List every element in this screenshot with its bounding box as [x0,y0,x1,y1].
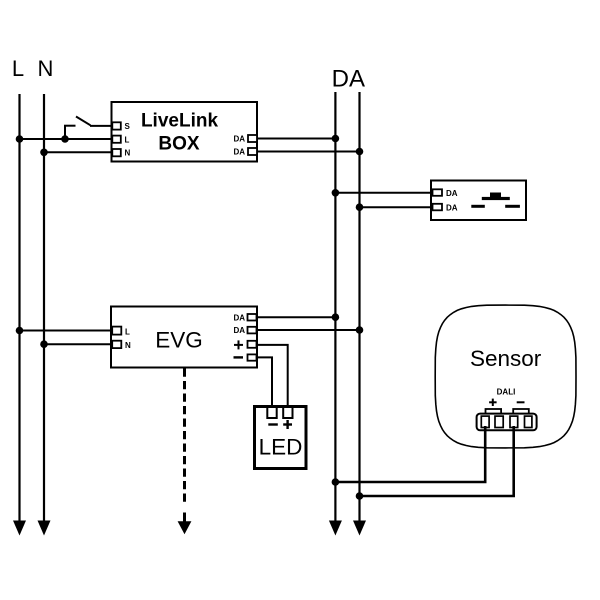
svg-text:L: L [125,135,130,144]
svg-text:DA: DA [233,326,245,335]
wire L bus to EVG L terminal [20,330,112,332]
wire N bus vertical [43,94,45,522]
svg-text:DA: DA [233,135,245,144]
svg-text:EVG: EVG [155,328,203,353]
Sensor connector pin 2 [495,416,503,427]
LiveLink terminal DA upper [248,135,257,142]
wire sensor plus to DA1 bus [335,426,485,482]
wire L bus to LiveLink L terminal [20,138,112,140]
svg-text:L: L [125,327,130,336]
wire EVG DA lower to DA2 bus [257,329,360,331]
wire EVG DA upper to DA1 bus [257,316,336,318]
wire DA1 bus to push-button [335,192,431,194]
EVG terminal L [112,327,121,335]
wire LiveLink DA upper to DA1 bus [257,138,335,140]
LiveLink terminal S [112,122,121,129]
junction dot DA2 / LiveLink [356,148,364,156]
wire EVG minus to LED minus [257,357,273,407]
Sensor connector pin 3 [510,416,518,427]
LiveLink BOX body [112,102,258,162]
LED plus label [283,420,292,429]
svg-text:DALI: DALI [497,387,516,396]
Sensor connector tab plus [486,409,502,415]
Sensor minus label [517,401,525,403]
push-button terminal DA lower [433,204,443,211]
junction dot L bus / L wire [16,135,24,143]
wire sensor minus to DA2 bus [360,426,514,496]
LED module body [255,407,307,469]
svg-text:DA: DA [233,314,245,323]
switch S (blade + pole) [64,117,112,140]
junction dot L bus / EVG [16,327,24,335]
dashed lamp arrow from EVG [183,369,186,524]
push-button module body [431,181,526,221]
EVG terminal N [112,341,121,348]
junction dot DA1 / EVG [332,313,340,321]
LiveLink terminal DA lower [248,148,257,155]
arrow N bus [38,521,51,536]
EVG terminal minus [248,354,257,360]
Sensor connector tab minus [513,409,529,415]
junction dot DA2 / sensor minus [356,492,364,500]
svg-text:N: N [125,341,131,350]
junction dot DA2 / button [356,203,364,211]
arrow DA1 bus [329,521,342,536]
junction dot switch pole [61,135,69,143]
Sensor connector block [477,414,537,431]
wire LiveLink DA lower to DA2 bus [257,151,360,153]
svg-text:LiveLink: LiveLink [141,111,219,132]
EVG terminal DA upper [248,314,257,321]
EVG terminal plus [248,341,257,348]
wire DA2 bus vertical [358,92,360,522]
Sensor connector pin 1 [481,416,489,427]
push-button terminal DA upper [433,189,443,196]
wire N bus to EVG N terminal [44,343,111,345]
svg-text:S: S [125,122,131,131]
junction dot DA1 / LiveLink [332,135,340,143]
Sensor body (squircle) [435,305,576,448]
arrow L bus [13,521,26,536]
junction dot DA1 / button [332,189,340,197]
junction dot N bus / EVG [40,340,48,348]
junction dot N bus / N wire [40,149,48,157]
svg-text:DA: DA [446,204,458,213]
LED terminal plus [283,407,292,418]
EVG body [111,307,257,368]
svg-text:Sensor: Sensor [470,346,542,371]
svg-text:LED: LED [259,435,303,460]
Sensor connector pin 4 [525,416,532,427]
junction dot DA1 / sensor plus [332,478,340,486]
LiveLink terminal N [112,149,121,156]
wire N bus to LiveLink N terminal [44,151,112,153]
wire L bus vertical [18,94,20,522]
svg-text:DA: DA [233,148,245,157]
svg-text:N: N [38,56,54,81]
svg-text:BOX: BOX [158,133,200,154]
svg-text:DA: DA [446,189,458,198]
push-button symbol [471,193,520,208]
svg-text:DA: DA [332,66,365,93]
junction dot DA2 / EVG [356,326,364,334]
svg-text:L: L [12,56,24,81]
svg-text:N: N [125,149,131,158]
wire EVG plus to LED plus [257,345,288,407]
LED terminal minus [267,407,276,418]
wire DA1 bus vertical [334,92,336,522]
LiveLink terminal L [112,136,121,143]
LED minus label [268,423,278,425]
wire DA2 bus to push-button [360,206,432,208]
arrow DA2 bus [353,521,366,536]
Sensor plus label [489,399,497,406]
EVG terminal DA lower [248,327,257,334]
